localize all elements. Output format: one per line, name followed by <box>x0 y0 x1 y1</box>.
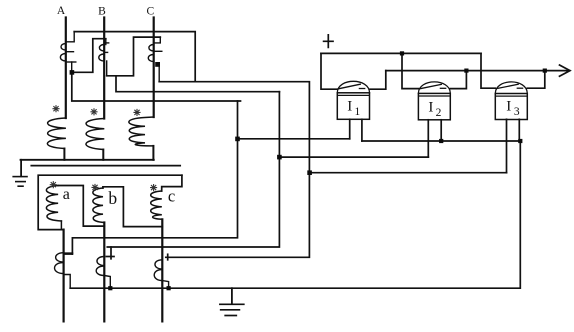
svg-text:b: b <box>108 188 117 208</box>
svg-text:3: 3 <box>514 106 520 118</box>
svg-text:A: A <box>57 5 66 17</box>
svg-text:B: B <box>98 5 106 17</box>
svg-text:I: I <box>506 99 511 115</box>
svg-text:2: 2 <box>436 107 442 119</box>
svg-text:I: I <box>428 100 433 116</box>
svg-text:1: 1 <box>355 106 361 118</box>
svg-text:C: C <box>146 5 154 17</box>
svg-text:a: a <box>63 186 70 203</box>
svg-text:c: c <box>168 187 175 206</box>
svg-text:I: I <box>347 99 352 115</box>
